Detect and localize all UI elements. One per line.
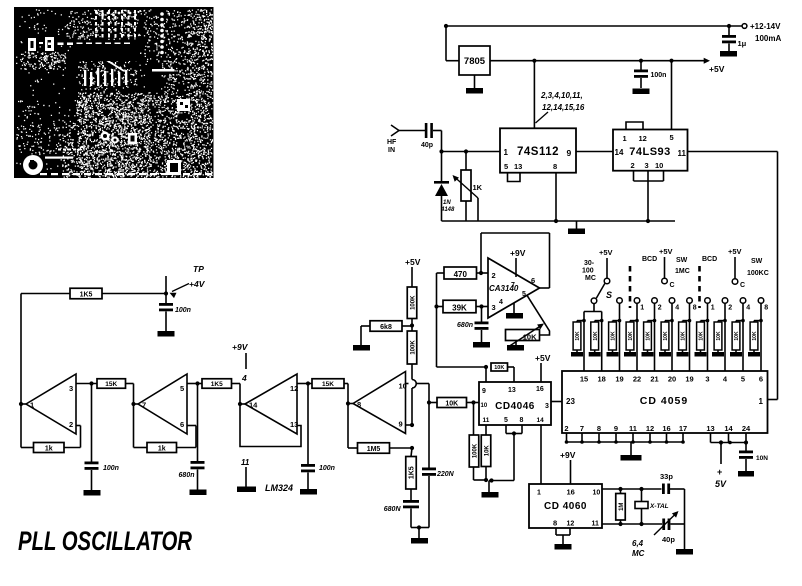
svg-text:2: 2 bbox=[69, 420, 73, 429]
wire 74S112 pin 8 to ground bus bbox=[555, 173, 557, 221]
svg-text:220N: 220N bbox=[436, 471, 455, 478]
svg-text:+5V: +5V bbox=[728, 247, 742, 256]
svg-text:15K: 15K bbox=[105, 381, 117, 388]
svg-text:680n: 680n bbox=[179, 472, 195, 479]
svg-text:16: 16 bbox=[662, 424, 670, 433]
ground CA3140 pin 4 bbox=[506, 303, 523, 319]
svg-text:3: 3 bbox=[645, 161, 649, 170]
svg-text:1K5: 1K5 bbox=[408, 466, 415, 479]
ground stage3 cap bbox=[300, 489, 317, 495]
capacitor 100n stage3 bbox=[301, 384, 335, 490]
wire 6k8 to ground bbox=[361, 326, 370, 345]
op-amp LM324 D bbox=[346, 372, 407, 434]
svg-text:16: 16 bbox=[536, 386, 544, 393]
label LM324 bbox=[265, 483, 293, 493]
svg-text:11: 11 bbox=[483, 417, 490, 424]
svg-text:1MC: 1MC bbox=[675, 268, 690, 275]
svg-text:4148: 4148 bbox=[440, 207, 455, 213]
svg-text:1K5: 1K5 bbox=[80, 292, 93, 299]
svg-text:MC: MC bbox=[632, 549, 645, 558]
svg-text:100n: 100n bbox=[651, 72, 667, 79]
wire CD4059 pins 13-14-24 bus bbox=[711, 433, 749, 445]
svg-text:10: 10 bbox=[481, 403, 488, 409]
svg-text:680n: 680n bbox=[457, 322, 473, 329]
wire CD4046 pin 14 to CD4060 pin 1 bbox=[540, 425, 542, 484]
ground CD4059 bus bbox=[621, 442, 642, 461]
svg-text:100n: 100n bbox=[175, 307, 191, 314]
svg-text:1k: 1k bbox=[45, 445, 53, 452]
wire CA3140 feedback loop bbox=[481, 233, 550, 288]
svg-text:10N: 10N bbox=[756, 455, 768, 462]
switch BCD 100KC common bbox=[702, 247, 769, 289]
op-amp CA3140 bbox=[488, 258, 540, 318]
svg-text:100n: 100n bbox=[319, 465, 335, 472]
wire feedback left rail bbox=[20, 294, 22, 448]
label 6.4 MC bbox=[632, 539, 645, 558]
crystal X-TAL 6.4MC bbox=[635, 489, 669, 524]
wire divider to op-amp pin 9 node bbox=[412, 364, 416, 425]
wire 74LS93 pins 2-3-10 to ground bus bbox=[634, 171, 664, 223]
resistor 100K at pin 11 node bbox=[469, 403, 486, 481]
svg-text:12: 12 bbox=[290, 384, 298, 393]
op-amp LM324 A bbox=[19, 374, 76, 434]
svg-text:8: 8 bbox=[520, 417, 524, 424]
resistor 1K5 vertical bbox=[406, 448, 417, 489]
wire +12V top rail bbox=[444, 24, 742, 28]
svg-text:8: 8 bbox=[693, 305, 697, 312]
svg-text:PLL OSCILLATOR: PLL OSCILLATOR bbox=[18, 526, 192, 556]
capacitor 1u bbox=[722, 24, 747, 51]
svg-text:+9V: +9V bbox=[560, 450, 576, 460]
label +5V at pin 13-14 bbox=[715, 443, 727, 490]
wire pin 12 node bbox=[297, 381, 312, 385]
svg-text:18: 18 bbox=[598, 375, 606, 384]
wire +5V rail bbox=[490, 58, 710, 64]
svg-text:1: 1 bbox=[504, 148, 509, 157]
svg-text:22: 22 bbox=[633, 375, 641, 384]
test point TP +4V bbox=[166, 264, 206, 298]
resistor 1K5 stage2 bbox=[202, 379, 240, 404]
svg-text:11: 11 bbox=[241, 458, 250, 467]
svg-text:1K5: 1K5 bbox=[211, 381, 223, 388]
switch circles BCD 1MC bbox=[634, 298, 697, 312]
label +5V divider bbox=[405, 257, 421, 287]
ground main bus bbox=[568, 221, 585, 234]
resistor 10K column pin 21 bbox=[642, 303, 657, 371]
wire pin 3 node bbox=[76, 381, 97, 385]
svg-text:23: 23 bbox=[566, 397, 575, 406]
svg-text:11: 11 bbox=[629, 424, 637, 433]
svg-text:13: 13 bbox=[514, 162, 522, 171]
svg-text:7: 7 bbox=[580, 424, 584, 433]
capacitor 680n stage2 bbox=[179, 384, 205, 490]
svg-text:17: 17 bbox=[679, 424, 687, 433]
resistor 10K column pin 19 bbox=[677, 303, 692, 371]
pins CD4059 bottom labels bbox=[564, 424, 751, 433]
svg-text:10K: 10K bbox=[593, 331, 599, 341]
svg-text:CD 4059: CD 4059 bbox=[640, 395, 688, 407]
ground for 680n bbox=[473, 342, 490, 348]
svg-text:470: 470 bbox=[454, 270, 468, 279]
resistor 1M bbox=[616, 489, 626, 524]
resistor 10K VCO input bbox=[427, 398, 479, 408]
svg-text:1k: 1k bbox=[158, 445, 166, 452]
svg-text:20: 20 bbox=[668, 375, 676, 384]
wire pin 5 node bbox=[187, 381, 202, 385]
svg-text:+5V: +5V bbox=[535, 353, 551, 363]
svg-text:10K: 10K bbox=[494, 365, 504, 371]
IC CD4059 bbox=[562, 371, 768, 433]
resistor 1M5 feedback bbox=[348, 404, 414, 454]
svg-text:39K: 39K bbox=[452, 304, 467, 313]
svg-text:19: 19 bbox=[615, 375, 623, 384]
svg-text:12,14,15,16: 12,14,15,16 bbox=[542, 103, 585, 112]
svg-text:3: 3 bbox=[69, 384, 73, 393]
svg-text:2: 2 bbox=[564, 424, 568, 433]
resistor 470 bbox=[444, 267, 488, 279]
label +5V CD4046 bbox=[535, 353, 551, 382]
op-amp LM324 C bbox=[238, 374, 298, 434]
svg-text:1: 1 bbox=[30, 401, 34, 410]
svg-text:15: 15 bbox=[580, 375, 588, 384]
ground LM324 pin 11 bbox=[237, 458, 256, 492]
resistor 1k stage1 feedback bbox=[21, 426, 81, 453]
svg-text:30-: 30- bbox=[584, 260, 595, 267]
svg-text:13: 13 bbox=[706, 424, 714, 433]
svg-text:2: 2 bbox=[631, 161, 635, 170]
regulator 7805 bbox=[459, 46, 490, 75]
label +9V LM324 pin 4 bbox=[232, 342, 249, 383]
resistor 15K stage3 bbox=[312, 379, 348, 404]
svg-text:+5V: +5V bbox=[405, 257, 421, 267]
resistor 10K column pin 3 bbox=[695, 303, 710, 371]
svg-text:13: 13 bbox=[290, 420, 298, 429]
svg-text:100n: 100n bbox=[103, 465, 119, 472]
svg-text:9: 9 bbox=[399, 420, 403, 429]
switch BCD 1MC common bbox=[642, 247, 690, 289]
capacitor 100n decoupling bbox=[634, 61, 666, 88]
svg-text:7: 7 bbox=[142, 401, 146, 410]
svg-text:+12-14V: +12-14V bbox=[750, 22, 781, 31]
svg-text:8: 8 bbox=[357, 400, 361, 409]
svg-text:BCD: BCD bbox=[642, 256, 657, 263]
svg-text:100K: 100K bbox=[410, 295, 416, 310]
svg-text:1M: 1M bbox=[619, 503, 625, 511]
svg-text:SW: SW bbox=[751, 258, 763, 265]
capacitor 680n at pin 3 bbox=[457, 307, 488, 343]
label +9V CA3140 bbox=[510, 248, 526, 277]
svg-text:10K: 10K bbox=[681, 331, 687, 341]
diode 1N4148 bbox=[434, 152, 455, 222]
resistor 10K column pin 19 bbox=[607, 303, 622, 371]
ground stage1 cap bbox=[84, 490, 101, 496]
resistor 10K at pin 11 bbox=[481, 425, 493, 483]
svg-text:8: 8 bbox=[553, 162, 557, 171]
svg-text:10K: 10K bbox=[734, 331, 740, 341]
svg-text:40p: 40p bbox=[662, 535, 675, 544]
resistor 39K bbox=[434, 300, 476, 313]
svg-text:5: 5 bbox=[522, 291, 526, 298]
svg-text:6: 6 bbox=[531, 276, 535, 285]
wire pin 10 to VCO node bbox=[406, 384, 430, 403]
svg-text:6: 6 bbox=[759, 375, 763, 384]
ground crystal network bbox=[676, 549, 693, 555]
ground for 100n bbox=[633, 89, 650, 95]
IC CD4046 bbox=[479, 382, 551, 425]
node HF input line bbox=[439, 149, 500, 153]
jumper 74LS93 pins 1-12 bbox=[626, 122, 643, 130]
svg-text:14: 14 bbox=[537, 417, 545, 424]
svg-text:HF: HF bbox=[387, 139, 397, 146]
svg-text:10K: 10K bbox=[663, 331, 669, 341]
pins CD4059 top labels bbox=[580, 375, 763, 384]
capacitor 10N at pin 24 bbox=[739, 443, 768, 472]
IC CD4060 bbox=[529, 484, 602, 528]
svg-text:9: 9 bbox=[614, 424, 618, 433]
resistor 100K upper bbox=[407, 287, 417, 319]
capacitor 220N bbox=[419, 403, 455, 528]
wire HF to 40p bbox=[399, 130, 425, 132]
svg-text:1μ: 1μ bbox=[738, 39, 747, 48]
svg-text:15K: 15K bbox=[322, 381, 334, 388]
svg-text:7: 7 bbox=[511, 282, 515, 289]
wire +5V to 74S112 supply pins bbox=[533, 61, 535, 129]
ground for TP cap bbox=[158, 331, 175, 337]
svg-text:1K: 1K bbox=[473, 183, 483, 192]
capacitor 680N bbox=[384, 489, 421, 530]
svg-text:12: 12 bbox=[639, 134, 647, 143]
svg-text:5V: 5V bbox=[715, 479, 727, 489]
svg-text:100: 100 bbox=[582, 268, 594, 275]
svg-text:+5V: +5V bbox=[709, 64, 725, 74]
svg-text:6: 6 bbox=[180, 420, 184, 429]
wire 40p to node bbox=[433, 131, 442, 152]
svg-text:SW: SW bbox=[676, 257, 688, 264]
svg-text:74LS93: 74LS93 bbox=[629, 146, 671, 158]
svg-text:+: + bbox=[717, 467, 722, 477]
switch circles BCD 100KC bbox=[705, 298, 769, 312]
svg-text:1N: 1N bbox=[443, 200, 451, 206]
wire pin 5 to trimmer bbox=[527, 295, 550, 335]
svg-text:14: 14 bbox=[615, 148, 624, 157]
node divider junction bbox=[410, 319, 414, 332]
switch S range 30-100MC bbox=[582, 248, 613, 312]
svg-text:6,4: 6,4 bbox=[632, 539, 644, 548]
wire pin 9 node bbox=[406, 423, 415, 427]
svg-text:12: 12 bbox=[567, 521, 575, 528]
svg-text:1: 1 bbox=[640, 305, 644, 312]
wire 7805 input bbox=[446, 26, 459, 61]
potentiometer 1K bbox=[453, 152, 483, 222]
wire pins 5-8 to ground bbox=[489, 425, 522, 481]
resistor 10K column pin 22 bbox=[624, 303, 639, 371]
wire 470 left to bias node bbox=[437, 273, 445, 367]
resistor 10K column pin 5 bbox=[730, 303, 745, 371]
svg-text:3: 3 bbox=[492, 303, 496, 312]
wire 74S112 pin 9 to 74LS93 pin 14 bbox=[576, 151, 613, 153]
svg-text:10K: 10K bbox=[699, 331, 705, 341]
wire ground bus bbox=[442, 219, 676, 223]
trimmer 10K bbox=[506, 324, 545, 348]
resistor 6k8 bbox=[370, 321, 412, 332]
resistor 100K lower bbox=[407, 331, 417, 364]
svg-text:1: 1 bbox=[623, 134, 627, 143]
svg-text:5: 5 bbox=[180, 384, 184, 393]
svg-text:10K: 10K bbox=[716, 331, 722, 341]
svg-text:9: 9 bbox=[482, 388, 486, 395]
svg-text:10K: 10K bbox=[445, 400, 458, 407]
svg-text:9: 9 bbox=[567, 148, 572, 158]
svg-text:4: 4 bbox=[241, 373, 247, 383]
svg-text:40p: 40p bbox=[421, 142, 433, 149]
svg-text:100K: 100K bbox=[410, 340, 416, 355]
wire 74LS93 pin 11 to CD4059 pin 1 bbox=[688, 152, 778, 400]
svg-text:4: 4 bbox=[746, 305, 750, 312]
resistor 10K column pin 20 bbox=[659, 303, 674, 371]
capacitor 40p bbox=[421, 123, 433, 149]
svg-text:13: 13 bbox=[508, 387, 516, 394]
svg-text:100mA: 100mA bbox=[755, 34, 781, 43]
wire CD4059 pins 2-17 ground bus bbox=[565, 433, 685, 444]
svg-text:1: 1 bbox=[711, 305, 715, 312]
ground stage2 cap bbox=[190, 490, 207, 496]
svg-text:21: 21 bbox=[650, 375, 658, 384]
svg-text:+9V: +9V bbox=[510, 248, 526, 258]
label +9V CD4060 bbox=[560, 450, 576, 484]
svg-text:100K: 100K bbox=[472, 443, 478, 458]
svg-text:19: 19 bbox=[685, 375, 693, 384]
ground 680N-220N bbox=[411, 528, 428, 544]
svg-text:+9V: +9V bbox=[232, 342, 249, 352]
svg-text:12: 12 bbox=[646, 424, 654, 433]
svg-text:10K: 10K bbox=[752, 331, 758, 341]
svg-text:10K: 10K bbox=[611, 331, 617, 341]
resistor 10K small bbox=[491, 363, 514, 382]
svg-text:3: 3 bbox=[545, 403, 549, 410]
svg-text:10K: 10K bbox=[575, 331, 581, 341]
resistor 10K column pin 4 bbox=[712, 303, 727, 371]
svg-text:10K: 10K bbox=[646, 331, 652, 341]
wire CD4060 pin 11 crystal bottom bbox=[602, 522, 685, 526]
svg-text:1: 1 bbox=[537, 490, 541, 497]
svg-text:2: 2 bbox=[658, 305, 662, 312]
svg-text:8: 8 bbox=[764, 305, 768, 312]
svg-text:8: 8 bbox=[553, 519, 557, 528]
svg-text:C: C bbox=[740, 282, 745, 289]
trimmer capacitor 40p bbox=[654, 511, 679, 544]
resistor 10K column pin 15 bbox=[571, 312, 586, 372]
svg-text:11: 11 bbox=[678, 149, 687, 158]
capacitor 100n at TP bbox=[159, 294, 191, 332]
op-amp LM324 B bbox=[131, 374, 187, 434]
resistor 1k stage2 feedback bbox=[134, 404, 197, 453]
wire bias node to CD4046 pin 9 bbox=[437, 365, 489, 382]
IC 74S112 bbox=[500, 128, 576, 172]
svg-text:5: 5 bbox=[504, 162, 508, 171]
wire CD4060 pins 8-12 to ground bbox=[556, 528, 570, 544]
resistor 15K stage1 bbox=[97, 379, 134, 404]
switch circle column 19 bbox=[617, 298, 623, 304]
terminal +12-14V input bbox=[742, 22, 781, 43]
svg-text:10: 10 bbox=[593, 490, 601, 497]
ground for 10N bbox=[738, 471, 754, 477]
resistor 10K column pin 18 bbox=[589, 312, 604, 372]
svg-text:5: 5 bbox=[670, 133, 674, 142]
svg-text:5: 5 bbox=[741, 375, 745, 384]
ground CD4060 bbox=[555, 544, 572, 550]
wire +5V to 74LS93 pin 5 bbox=[671, 61, 673, 130]
connector HF IN bbox=[387, 125, 399, 154]
svg-text:14: 14 bbox=[249, 401, 258, 410]
svg-text:+5V: +5V bbox=[599, 248, 613, 257]
capacitor 33p bbox=[660, 472, 673, 494]
ground for trimmer bbox=[507, 341, 524, 351]
svg-text:3: 3 bbox=[705, 375, 709, 384]
svg-text:10: 10 bbox=[655, 161, 663, 170]
wire crystal right to ground bbox=[684, 489, 686, 549]
svg-text:4: 4 bbox=[499, 299, 503, 306]
svg-text:BCD: BCD bbox=[702, 256, 717, 263]
dashed separator left bbox=[629, 266, 632, 308]
svg-text:2: 2 bbox=[492, 271, 496, 280]
svg-text:10K: 10K bbox=[523, 333, 537, 342]
svg-text:CD 4060: CD 4060 bbox=[544, 501, 587, 512]
note supply pins 74S112 bbox=[536, 91, 585, 123]
svg-text:4: 4 bbox=[675, 305, 679, 312]
label +5V bbox=[709, 64, 725, 74]
wire CD4046 pin 3 to CD4059 pin 23 bbox=[551, 401, 562, 403]
ground for 1u bbox=[720, 51, 737, 57]
dashed separator right bbox=[698, 266, 701, 308]
resistor 1K5 top bbox=[21, 288, 168, 299]
svg-text:8: 8 bbox=[597, 424, 601, 433]
svg-text:2,3,4,10,11,: 2,3,4,10,11, bbox=[540, 91, 583, 100]
ground for 6k8 bbox=[353, 345, 370, 351]
ground for 7805 bbox=[466, 75, 483, 94]
svg-text:X-TAL: X-TAL bbox=[649, 503, 669, 510]
ground CD4046 network bbox=[482, 481, 499, 498]
svg-text:10K: 10K bbox=[628, 331, 634, 341]
svg-text:6k8: 6k8 bbox=[380, 324, 392, 331]
svg-text:24: 24 bbox=[742, 424, 751, 433]
svg-text:11: 11 bbox=[592, 521, 600, 528]
svg-text:IN: IN bbox=[388, 147, 395, 154]
svg-text:5: 5 bbox=[504, 417, 508, 424]
svg-text:16: 16 bbox=[567, 488, 575, 497]
svg-text:1: 1 bbox=[759, 397, 764, 406]
svg-text:+5V: +5V bbox=[659, 247, 673, 256]
wire CD4060 pin 10 crystal top bbox=[602, 487, 685, 491]
svg-text:2: 2 bbox=[728, 305, 732, 312]
svg-text:MC: MC bbox=[585, 275, 596, 282]
svg-text:+4V: +4V bbox=[189, 279, 206, 289]
svg-text:7805: 7805 bbox=[464, 56, 486, 67]
svg-text:680N: 680N bbox=[384, 506, 402, 513]
IC 74LS93 bbox=[613, 130, 688, 171]
svg-text:LM324: LM324 bbox=[265, 483, 293, 493]
svg-text:CD4046: CD4046 bbox=[495, 401, 535, 412]
photo PCB prototype bbox=[14, 7, 214, 178]
capacitor 100n stage1 bbox=[85, 384, 119, 491]
resistor 10K column pin 6 bbox=[748, 303, 763, 371]
svg-text:C: C bbox=[670, 282, 675, 289]
jumper 74S112 pins 5-13 bbox=[508, 173, 521, 182]
wire stage3 feedback bbox=[240, 404, 301, 447]
wire 39K to pin 3 bbox=[476, 304, 489, 308]
svg-text:14: 14 bbox=[724, 424, 733, 433]
svg-text:10K: 10K bbox=[484, 445, 490, 457]
svg-text:100KC: 100KC bbox=[747, 270, 769, 277]
